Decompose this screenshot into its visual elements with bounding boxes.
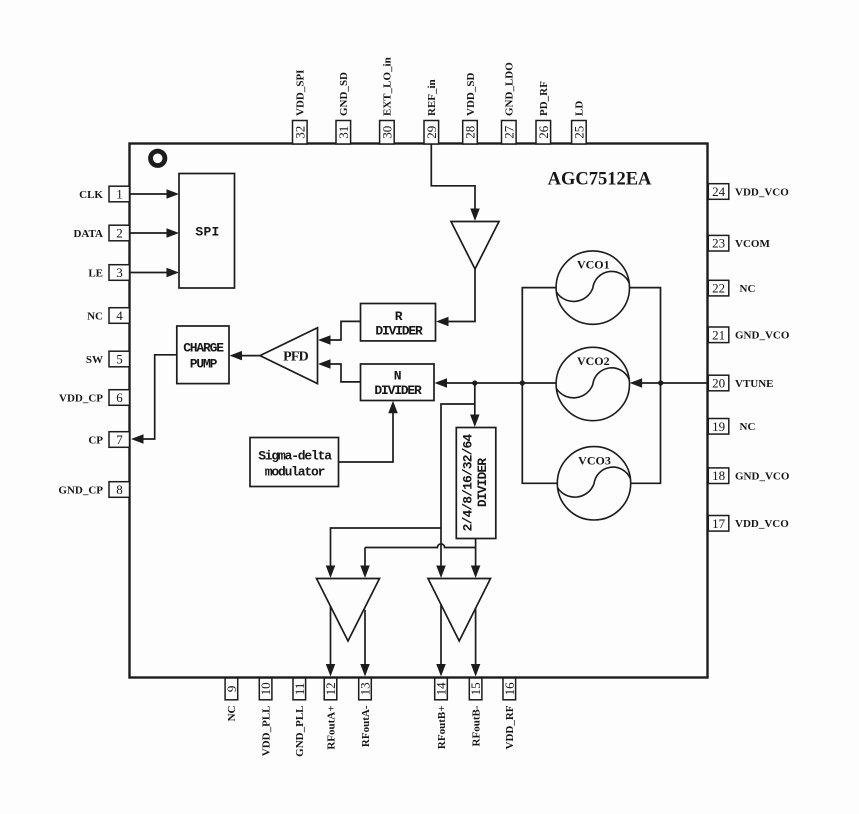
svg-text:VDD_VCO: VDD_VCO [735,186,789,198]
svg-text:VDD_VCO: VDD_VCO [735,518,789,530]
pin 7 CP [109,432,130,448]
pin 28 VDD_SD [463,121,478,145]
pin 3 LE [109,265,130,281]
wire buffer output to R divider [447,269,475,322]
svg-text:20: 20 [712,376,725,391]
output buffer A (triangle) [317,579,380,642]
pin 30 EXT_LO_in [380,121,395,145]
oscillator VCO1 [556,251,629,324]
svg-text:VCO3: VCO3 [578,453,611,467]
svg-text:8: 8 [116,482,123,497]
pin 17 VDD_VCO [708,516,729,532]
svg-text:N: N [394,369,401,384]
junction left rail [520,380,525,385]
svg-text:31: 31 [336,126,351,139]
wire pin29 REF_in to input buffer [431,144,475,210]
svg-text:LD: LD [574,101,586,116]
wire R divider to PFD [329,321,361,340]
wire VCO2 to N divider [445,382,556,384]
svg-text:RFoutB-: RFoutB- [470,705,482,746]
svg-text:27: 27 [501,125,516,139]
svg-text:CP: CP [88,434,103,446]
svg-text:28: 28 [463,126,478,139]
svg-text:30: 30 [379,126,394,139]
svg-text:DIVIDER: DIVIDER [475,458,490,507]
svg-text:GND_VCO: GND_VCO [735,330,790,342]
svg-text:14: 14 [434,682,449,696]
svg-text:25: 25 [571,126,586,139]
oscillator VCO3 [557,447,630,520]
pin 27 GND_LDO [502,121,517,145]
pin 9 NC [225,678,238,700]
svg-text:NC: NC [740,283,756,295]
svg-text:PD_RF: PD_RF [538,81,550,116]
svg-text:29: 29 [424,126,439,139]
svg-text:EXT_LO_in: EXT_LO_in [382,57,394,116]
SPI block U1 [179,174,235,289]
pin 6 VDD_CP [109,390,130,406]
oscillator VCO2 [556,347,629,420]
R divider block [361,304,436,341]
svg-text:VDD_RF: VDD_RF [504,705,516,749]
svg-text:VDD_CP: VDD_CP [59,392,103,404]
pin 4 NC [109,308,130,324]
wire pin3 LE to SPI [130,272,168,274]
junction right rail [658,380,663,385]
svg-text:LE: LE [88,267,103,279]
charge pump block [177,326,229,384]
pin-1 indicator circle [151,151,165,165]
svg-text:DATA: DATA [73,228,103,240]
svg-text:VCO1: VCO1 [577,258,610,272]
svg-text:2: 2 [116,226,123,241]
pin 21 GND_VCO [708,327,729,343]
svg-text:3: 3 [116,265,123,280]
pin 24 VDD_VCO [708,184,729,200]
wire sigma-delta to N divider [339,412,394,463]
2/4/8/16/32/64 divider block [456,428,496,539]
svg-text:modulator: modulator [265,465,325,480]
wire PFD to charge pump [241,355,261,357]
svg-text:26: 26 [536,125,551,139]
svg-text:16: 16 [502,682,517,696]
svg-text:23: 23 [712,236,725,251]
buffer B output wires to pins 14,15 [440,604,442,665]
pin 20 VTUNE [708,375,729,391]
svg-text:6: 6 [116,390,123,405]
svg-text:32: 32 [292,126,307,139]
wire VTUNE pin20 to VCO2 [641,382,709,384]
svg-text:SPI: SPI [195,225,219,240]
svg-text:9: 9 [224,686,239,693]
svg-text:GND_LDO: GND_LDO [504,62,516,116]
svg-text:DIVIDER: DIVIDER [374,383,422,398]
svg-text:RFoutB+: RFoutB+ [436,706,448,750]
output buffer B (triangle) [428,579,491,642]
pin 10 VDD_PLL [259,678,272,700]
pin 12 RFoutA+ [324,678,337,700]
sigma-delta modulator block [250,438,339,487]
svg-text:7: 7 [116,432,123,447]
pin 22 NC [708,280,729,296]
svg-text:21: 21 [712,327,725,342]
N divider block [361,364,435,401]
PFD block (triangle) [260,328,318,384]
pin 16 VDD_RF [503,678,516,700]
buffer A output wires to pins 12,13 [330,606,332,665]
wire pin1 CLK to SPI [130,193,168,195]
svg-text:13: 13 [358,682,373,695]
svg-text:VTUNE: VTUNE [735,378,774,390]
pin 29 REF_in [424,121,439,145]
svg-text:NC: NC [226,705,238,721]
pin 14 RFoutB+ [435,678,448,700]
svg-text:VDD_SD: VDD_SD [465,73,477,116]
svg-text:24: 24 [712,184,726,199]
svg-text:GND_PLL: GND_PLL [294,706,306,757]
pin 18 GND_VCO [708,468,729,484]
svg-text:4: 4 [116,308,123,323]
reference input buffer (triangle) [451,222,499,270]
svg-text:1: 1 [116,187,123,202]
pin 15 RFoutB- [469,678,482,700]
pin 1 CLK [109,186,130,202]
svg-text:DIVIDER: DIVIDER [375,324,423,339]
pin 5 SW [109,351,130,367]
svg-text:SW: SW [86,354,103,366]
IC outline box AGC7512EA [130,144,708,678]
svg-text:GND_CP: GND_CP [58,484,103,496]
svg-text:NC: NC [87,310,103,322]
junction node A [472,380,477,385]
svg-text:2/4/8/16/32/64: 2/4/8/16/32/64 [461,434,476,532]
svg-text:10: 10 [258,682,273,695]
svg-text:CLK: CLK [79,189,103,201]
pin 8 GND_CP [109,482,130,498]
svg-text:12: 12 [323,682,338,695]
svg-text:PUMP: PUMP [190,357,218,372]
svg-text:22: 22 [712,281,725,296]
svg-text:VDD_SPI: VDD_SPI [295,70,307,116]
svg-text:5: 5 [116,352,123,367]
wire N divider to PFD [329,364,361,382]
svg-text:19: 19 [712,419,725,434]
pin 2 DATA [109,225,130,241]
pin 19 NC [708,419,729,435]
svg-text:Sigma-delta: Sigma-delta [258,449,332,464]
svg-text:GND_VCO: GND_VCO [735,471,790,483]
svg-text:11: 11 [292,683,307,696]
wire pin2 DATA to SPI [130,232,168,234]
svg-text:RFoutA-: RFoutA- [360,705,372,747]
wire charge pump to pin7 CP [142,355,177,439]
VCO left rail [522,288,557,484]
svg-text:17: 17 [712,516,726,531]
pin 11 GND_PLL [293,678,306,700]
pin 26 PD_RF [536,121,551,145]
svg-text:VCOM: VCOM [735,238,770,250]
pin 13 RFoutA- [359,678,372,700]
VCO right rail [629,288,660,484]
svg-text:VDD_PLL: VDD_PLL [260,706,272,757]
svg-text:RFoutA+: RFoutA+ [325,706,337,750]
pin 23 VCOM [708,235,729,251]
svg-text:NC: NC [740,421,756,433]
svg-text:PFD: PFD [283,350,309,365]
wire node A branch to buffers [441,404,475,567]
wire node A down to prescaler divider [474,383,476,416]
svg-text:REF_in: REF_in [426,79,438,116]
svg-text:AGC7512EA: AGC7512EA [548,170,652,190]
svg-text:CHARGE: CHARGE [183,341,224,356]
svg-text:18: 18 [712,468,725,483]
pin 31 GND_SD [336,121,351,145]
wire divider output to buffers (with hop) [475,539,477,568]
svg-text:GND_SD: GND_SD [338,72,350,116]
pin 25 LD [572,121,587,145]
svg-text:VCO2: VCO2 [577,354,610,368]
pin 32 VDD_SPI [293,121,308,145]
svg-text:15: 15 [468,682,483,695]
